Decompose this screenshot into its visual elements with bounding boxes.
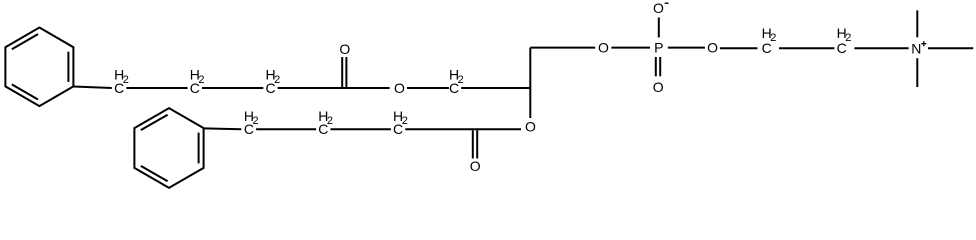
svg-text:O: O (394, 80, 405, 96)
atom C8 CH2 label (762, 25, 777, 56)
bond O-P (left) (611, 47, 650, 49)
bond O to C8 (720, 47, 758, 49)
ring 1 inner double-bond line (right edge) (67, 52, 69, 82)
svg-text:O: O (339, 41, 350, 57)
bond C4 to glycerol CH (461, 87, 530, 89)
glycerol top CH2 corner bond to phosphate O (530, 47, 595, 49)
atom O- (phosphate anionic oxygen) (653, 0, 668, 16)
atom C1 CH2 label (114, 67, 129, 96)
bond C6-C7 (331, 128, 391, 130)
bond carbonyl C to ester O (ester 2) (475, 128, 521, 130)
svg-text:2: 2 (458, 74, 464, 86)
ring 1 inner double-bond line (top-left edge) (12, 34, 38, 49)
svg-text:N: N (911, 40, 921, 56)
ring 2 inner double-bond line (right edge) (198, 133, 200, 164)
bond N to methyl (up) (916, 10, 918, 37)
svg-text:2: 2 (327, 115, 333, 127)
benzene ring 2 outline (134, 108, 203, 188)
svg-text:O: O (653, 79, 664, 95)
bond C7 to carbonyl C (ester 2) (405, 128, 475, 130)
atom C9 CH2 label (837, 25, 852, 56)
bond P-O (right) (668, 47, 705, 49)
bond C5-C6 (256, 128, 316, 130)
svg-text:2: 2 (770, 32, 776, 44)
glycerol backbone vertical bond (CH2-CH-O) (529, 48, 531, 118)
bond N to methyl (right) (928, 47, 973, 49)
carbonyl C=O double bond (ester 1) (342, 57, 346, 87)
bond P to O- (up) (658, 18, 660, 38)
bond C8-C9 (779, 47, 834, 49)
carbonyl C=O double bond (ester 2) (473, 130, 477, 158)
P=O double bond (down) (656, 57, 660, 76)
svg-text:2: 2 (253, 115, 259, 127)
svg-text:2: 2 (274, 74, 280, 86)
svg-text:2: 2 (123, 74, 129, 86)
atom C7 CH2 label (393, 108, 408, 137)
svg-text:2: 2 (402, 115, 408, 127)
atom N+ (quaternary nitrogen) (911, 40, 926, 56)
atom C5 CH2 label (244, 108, 259, 137)
benzene ring 1 outline (5, 28, 73, 107)
bond C9-N (854, 47, 908, 49)
svg-text:P: P (654, 40, 663, 56)
bond: ring 1 to C1 (73, 87, 111, 89)
svg-text:O: O (653, 0, 664, 16)
svg-text:2: 2 (845, 32, 851, 44)
atom C2 CH2 label (190, 67, 205, 96)
bond C3 to carbonyl C (ester 1) (278, 87, 347, 89)
bond carbonyl C to ester O (ester 1) (346, 87, 389, 89)
ring 1 inner double-bond line (bottom-left edge) (12, 84, 38, 99)
bond C2-C3 (202, 87, 263, 89)
svg-text:O: O (707, 39, 718, 55)
bond C1-C2 (126, 87, 187, 89)
svg-text:2: 2 (198, 74, 204, 86)
svg-text:O: O (598, 39, 609, 55)
ring 2 inner double-bond line (bottom-left edge) (141, 166, 168, 181)
svg-text:O: O (470, 158, 481, 174)
atom C6 CH2 label (318, 108, 333, 137)
atom C4 CH2 label (449, 67, 464, 96)
bond ester O to C4 (407, 87, 449, 89)
bond N to methyl (down) (916, 58, 918, 87)
ring 2 inner double-bond line (top-left edge) (141, 115, 168, 130)
svg-text:O: O (525, 119, 536, 135)
atom C3 CH2 label (265, 67, 280, 96)
bond: ring 2 to C5 (204, 127, 242, 130)
